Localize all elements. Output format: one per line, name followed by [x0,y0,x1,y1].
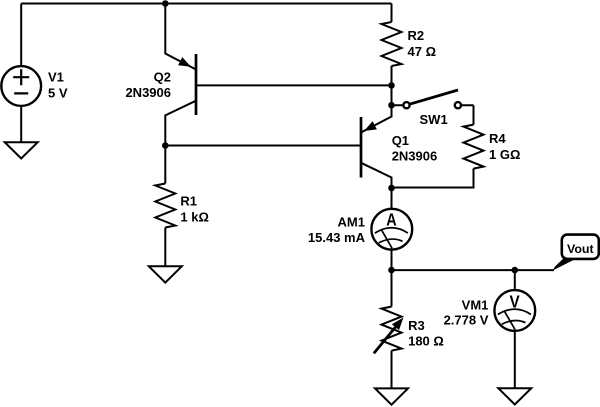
svg-text:Q1: Q1 [392,133,409,148]
svg-text:Q2: Q2 [154,70,171,85]
svg-text:47 Ω: 47 Ω [408,44,437,59]
svg-text:R1: R1 [180,194,197,209]
svg-text:2.778 V: 2.778 V [444,313,489,328]
svg-text:15.43 mA: 15.43 mA [308,230,366,245]
svg-text:5 V: 5 V [48,85,68,100]
svg-text:R2: R2 [408,28,425,43]
svg-text:AM1: AM1 [338,214,365,229]
svg-text:V1: V1 [48,70,64,85]
svg-text:A: A [386,209,397,229]
svg-text:1 kΩ: 1 kΩ [180,209,209,224]
svg-text:180 Ω: 180 Ω [408,334,444,349]
svg-text:2N3906: 2N3906 [125,85,171,100]
svg-text:VM1: VM1 [462,297,489,312]
svg-text:Vout: Vout [567,242,594,256]
svg-text:1 GΩ: 1 GΩ [489,147,520,162]
svg-text:R4: R4 [489,131,506,146]
svg-text:2N3906: 2N3906 [392,149,438,164]
svg-text:R3: R3 [408,318,425,333]
svg-text:SW1: SW1 [420,112,448,127]
